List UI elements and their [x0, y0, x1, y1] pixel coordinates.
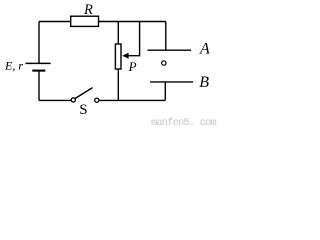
svg-text:S: S — [79, 102, 87, 118]
svg-text:A: A — [199, 41, 210, 58]
svg-text:E, r: E, r — [4, 59, 23, 73]
svg-text:manfen5. com: manfen5. com — [151, 117, 216, 126]
svg-text:P: P — [128, 59, 137, 74]
svg-text:B: B — [199, 74, 209, 91]
svg-text:R: R — [83, 2, 93, 18]
